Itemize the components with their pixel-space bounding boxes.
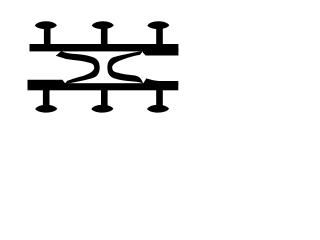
bottom bar (28, 83, 179, 90)
pin stub bottom 3 (156, 89, 163, 107)
pin stub top 1 (44, 27, 51, 45)
right arrow tail under top bar (143, 48, 178, 56)
pin cap top 2 (92, 21, 114, 29)
pin cap top 1 (35, 21, 57, 29)
pin stub bottom 2 (101, 89, 108, 107)
pin cap top 3 (147, 21, 169, 29)
pin stub bottom 1 (43, 89, 50, 107)
pin cap bottom 3 (147, 105, 169, 113)
pin stub top 3 (156, 27, 163, 45)
pin stub top 2 (101, 27, 108, 45)
right arrow bottom layer to bar end (158, 81, 178, 85)
pin cap bottom 2 (91, 105, 113, 113)
top bar (30, 44, 179, 51)
pin cap bottom 1 (35, 105, 57, 113)
left arrow shaft with head (56, 51, 100, 84)
right arrow shaft with head (107, 51, 160, 85)
left arrow tail on bottom bar (28, 80, 66, 86)
